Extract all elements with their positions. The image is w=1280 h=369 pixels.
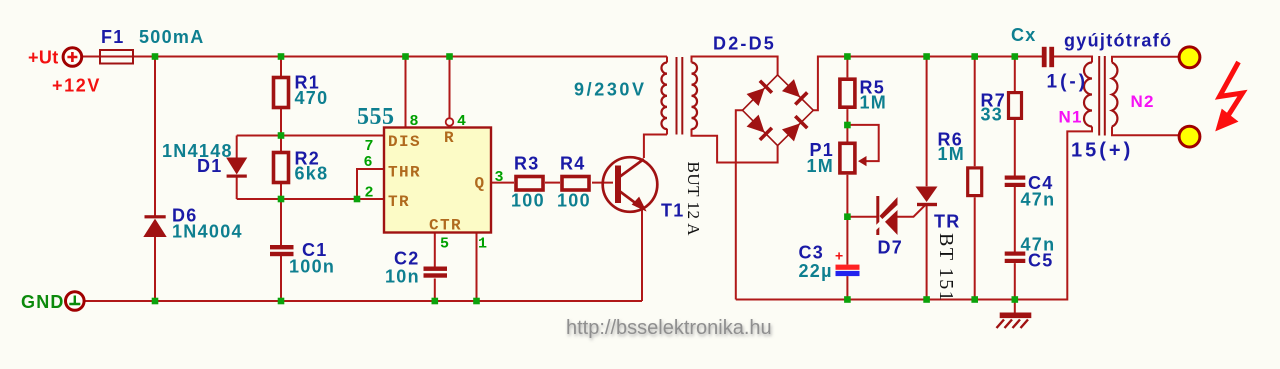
wire pin 4 [449,57,451,119]
wire N2 top to terminal [1112,57,1179,63]
wire C2 to ground rail [434,279,436,302]
svg-text:N1: N1 [1059,108,1083,127]
wire earth stub [1014,300,1016,313]
potentiometer P1 [840,143,855,173]
wire Q output to R3 [491,182,514,184]
capacitor C2 [424,267,448,278]
junction R5-P1 wiper node [844,122,851,129]
junction bottom R6 [971,296,978,303]
junction GND-C2 [432,298,439,305]
junction bottom TR [923,296,930,303]
wire primary top stub [666,57,668,63]
svg-text:D1: D1 [197,156,223,176]
svg-text:100: 100 [557,191,591,211]
ignition transformer core [1099,56,1105,136]
svg-text:http://bsselektronika.hu: http://bsselektronika.hu [566,317,772,339]
thyristor TR BT151 [916,187,938,207]
svg-text:1: 1 [478,236,487,253]
wire R4 to T1 base [592,182,613,184]
capacitor C3 electrolytic [836,265,860,277]
svg-text:100: 100 [511,191,545,211]
wire secondary bottom to bridge AC2 [692,129,778,163]
earth ground symbol [997,313,1032,329]
capacitor C5 [1005,252,1026,264]
ignition transformer N1 winding [1084,63,1092,127]
watermark [566,317,773,341]
svg-text:TR: TR [388,193,410,211]
transistor Q1 T1 [603,157,658,212]
svg-text:C5: C5 [1028,251,1054,271]
diode D2 top-left [747,79,774,106]
junction THR-TR node [354,196,361,203]
svg-text:6: 6 [364,154,373,171]
svg-text:7: 7 [365,138,374,155]
wire R5 bottom to P1 top [846,109,848,141]
junction fuse-D6 node [152,53,159,60]
transformer TR1 secondary winding [692,63,698,130]
svg-text:D2-D5: D2-D5 [713,34,776,54]
junction pin8 rail [402,53,409,60]
wire primary bottom stub [666,129,668,135]
wire pin 8 [405,57,407,128]
wire N2 bottom to terminal [1112,127,1179,136]
pin 4 inversion circle [446,118,454,126]
wire +Ut terminal to fuse [82,56,100,58]
capacitor Cx [1042,47,1054,67]
resistor R4 [562,177,589,191]
resistor R6 [968,168,982,196]
svg-text:2: 2 [365,185,374,202]
transformer TR1 9/230V primary winding [661,63,667,130]
wire R3 to R4 [545,182,560,184]
wire C4 to C5 [1014,187,1016,252]
wire R7 top [1014,57,1016,92]
wire D7 row [847,205,925,217]
junction GND-C1 [278,298,285,305]
svg-text:8: 8 [410,113,419,130]
svg-text:100n: 100n [289,257,335,277]
wire pin 1 to ground rail [476,233,478,302]
svg-text:T1: T1 [661,201,685,221]
wire R6 bottom [974,197,976,299]
ignition transformer N2 winding [1112,63,1117,127]
svg-text:Q: Q [475,175,486,193]
svg-text:+: + [835,248,843,264]
svg-text:470: 470 [295,88,329,108]
svg-text:CTR: CTR [429,217,462,235]
wire TR anode [926,57,928,187]
svg-text:+Ut: +Ut [28,48,59,68]
junction bottom C5-earth [1012,296,1019,303]
wire C5 bottom [1014,263,1016,299]
svg-text:R4: R4 [560,154,586,174]
junction rail R6 [971,53,978,60]
wire Cx to N1 top [1054,57,1092,63]
wire bridge plus to top right rail [813,57,1042,111]
wire P1 bottom to C3 [846,175,848,265]
svg-text:F1: F1 [101,27,125,47]
svg-text:1(-): 1(-) [1047,72,1089,93]
terminal HT top [1179,47,1200,68]
junction bottom C3 [844,296,851,303]
terminal GND [66,292,85,311]
svg-text:10n: 10n [385,267,420,287]
svg-text:R3: R3 [514,154,540,174]
spark symbol [1216,62,1243,131]
svg-text:1M: 1M [860,93,888,113]
svg-text:555: 555 [357,104,395,130]
diode D4 bottom-left [747,115,774,142]
svg-text:C2: C2 [394,249,420,269]
svg-text:DIS: DIS [388,133,421,151]
capacitor C1 [270,245,294,256]
wire pin 5 to C2 [434,233,436,267]
svg-text:gyújtótrafó: gyújtótrafó [1064,31,1172,51]
svg-text:4: 4 [457,113,466,130]
diode D1 [227,158,247,178]
junction R2 bottom node [278,196,285,203]
svg-text:22µ: 22µ [799,261,833,281]
svg-text:THR: THR [388,164,421,182]
resistor R7 [1009,93,1022,119]
wire top +12V rail [133,56,667,58]
terminal HT bottom [1179,126,1200,147]
wire P1 wiper link [847,125,878,161]
svg-text:GND: GND [21,292,65,312]
svg-text:5: 5 [440,236,449,253]
svg-text:6k8: 6k8 [295,164,329,184]
svg-text:BT 151: BT 151 [935,233,957,302]
svg-text:Cx: Cx [1011,25,1037,45]
junction P1-D7-C3 node [844,213,851,220]
junction rail R5 [844,53,851,60]
svg-text:47n: 47n [1021,190,1056,210]
wire TR row [237,198,384,200]
wire GND rail [85,300,642,302]
svg-text:500mA: 500mA [139,27,205,47]
junction R1-R2 node [278,132,285,139]
junction GND-D6 [152,298,159,305]
wire TR cathode [926,206,928,300]
wire D1 vertical [236,136,238,200]
bridge rectifier D2-D5 diamond [743,75,814,146]
svg-text:9/230V: 9/230V [574,80,647,100]
junction GND-pin1 [473,298,480,305]
junction R1 top [278,53,285,60]
diode D5 bottom-right [782,115,809,142]
wire bottom right rail [736,127,1092,300]
wire THR link [357,169,384,199]
fuse F1 [100,50,133,64]
wire node A vertical to D6 [154,57,156,302]
transformer TR1 core [677,57,683,135]
wire R2 bottom to C1 [280,184,282,301]
svg-text:+12V: +12V [52,76,101,96]
resistor R3 [516,177,543,191]
resistor R2 [274,153,289,183]
svg-text:1M: 1M [807,156,835,176]
svg-text:D7: D7 [878,238,904,258]
resistor R5 [840,79,855,107]
wire DIS row to D1 [237,135,384,137]
junction rail R7 [1012,53,1019,60]
svg-text:15(+): 15(+) [1071,140,1133,162]
wire R5 top [846,57,848,78]
svg-text:R: R [444,129,455,147]
wire T1 emitter down [641,208,643,301]
diode D6 [144,215,166,236]
wire R1 bottom to R2 top [280,109,282,151]
junction pin4 rail [446,53,453,60]
op-amp U1 555 timer body [384,128,491,233]
svg-text:1M: 1M [938,144,966,164]
potentiometer P1 wiper arrow [858,156,867,166]
resistor R1 [274,78,289,108]
capacitor C4 [1005,176,1026,188]
wire R7 to C4 [1014,120,1016,176]
junction rail TR [923,53,930,60]
svg-text:TR: TR [934,212,961,232]
wire bridge minus to bottom rail [736,110,743,299]
terminal +Ut [63,48,82,67]
svg-text:BUT 12 A: BUT 12 A [684,162,703,237]
wire fuse internal [100,56,133,58]
wire R1 top [280,57,282,77]
svg-text:C3: C3 [799,243,825,263]
svg-text:3: 3 [495,169,504,186]
svg-text:33: 33 [981,105,1004,125]
wire secondary top to bridge AC1 [692,57,778,76]
diode D3 top-right [782,79,809,106]
svg-text:N2: N2 [1131,92,1155,111]
svg-text:1N4004: 1N4004 [172,222,243,242]
wire C3 bottom [846,276,848,299]
wire T1 collector to primary [644,135,667,159]
wire R6 top [974,57,976,167]
diac D7 [875,196,899,235]
